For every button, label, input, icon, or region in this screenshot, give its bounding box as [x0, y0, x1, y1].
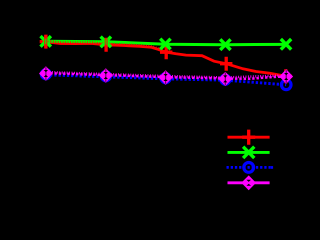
green line (series 2) — [46, 41, 286, 45]
legend green X marker — [243, 147, 254, 158]
blue circle marker 5 — [281, 80, 291, 90]
blue circle marker 3 — [161, 74, 170, 83]
legend magenta diamond marker — [241, 175, 256, 190]
red + marker 5 — [280, 69, 292, 83]
legend blue circle marker — [244, 163, 254, 173]
green X marker 5 — [281, 39, 291, 50]
magenta diamond marker 5 — [279, 69, 293, 83]
red + marker 1 — [40, 35, 52, 49]
legend blue dashed sample line — [227, 166, 273, 169]
red line (series 1) — [46, 42, 286, 77]
magenta diamond marker 1 — [39, 66, 53, 80]
magenta diamond marker 4 — [218, 72, 232, 86]
blue circle marker 1 — [41, 70, 50, 79]
magenta line (series 4) — [46, 73, 286, 79]
legend red sample line — [228, 136, 270, 139]
magenta small tick markers along line — [50, 71, 279, 79]
blue circle marker 2 — [101, 72, 110, 81]
magenta diamond marker 3 — [159, 70, 173, 84]
blue circle marker 4 — [221, 75, 230, 84]
green X marker 3 — [160, 39, 170, 50]
legend red + marker — [242, 130, 255, 145]
magenta diamond marker 2 — [99, 68, 113, 82]
green X marker 1 — [41, 36, 51, 47]
blue dashed line (series 3) — [46, 75, 286, 85]
red + marker 4 — [220, 57, 232, 71]
legend green sample line — [228, 151, 270, 154]
red + overlay slit on marker 2 — [105, 38, 108, 48]
red small tick markers along flat part — [48, 40, 162, 51]
legend magenta sample line — [228, 181, 270, 184]
red + marker 2 — [100, 38, 112, 52]
legend blue dash end cap — [271, 166, 273, 169]
red + overlay slit on marker 1 — [44, 35, 47, 48]
red + marker 3 — [160, 45, 172, 59]
green X marker 4 — [220, 39, 230, 50]
green X marker 2 — [101, 37, 111, 48]
